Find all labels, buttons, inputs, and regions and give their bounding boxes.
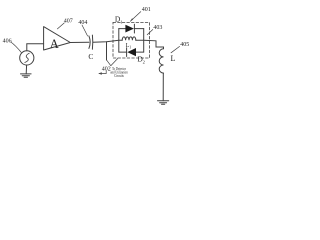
svg-text:C: C bbox=[88, 52, 93, 61]
label D2 bbox=[137, 54, 144, 64]
arrow to detector (L-shaped, pointing left) bbox=[98, 71, 106, 75]
node stub down from junction (output tap) bbox=[106, 42, 108, 60]
label 401 with arrow leader bbox=[130, 7, 151, 22]
text To Detector and Utilization Circuits bbox=[110, 67, 128, 78]
wire inductor L to ground bbox=[162, 73, 164, 101]
inner loop right vertical wire bbox=[143, 29, 145, 52]
bottom branch wire (D2 branch) bbox=[119, 51, 127, 53]
inductor L (vertical, 3 loops left) bbox=[159, 47, 175, 73]
svg-text:405: 405 bbox=[180, 42, 189, 48]
wire box output to antenna inductor bbox=[144, 40, 164, 47]
wire amplifier output to capacitor bbox=[70, 41, 89, 43]
svg-text:1: 1 bbox=[120, 19, 122, 24]
svg-text:407: 407 bbox=[64, 18, 73, 24]
capacitor C bbox=[88, 35, 93, 61]
label 405 bbox=[171, 42, 189, 53]
wire source bottom to ground bbox=[25, 65, 27, 74]
label 404 bbox=[78, 20, 87, 36]
inductor L1 (4 loops up) bbox=[122, 37, 136, 50]
label 403 bbox=[147, 25, 162, 35]
svg-text:A: A bbox=[50, 37, 59, 51]
svg-text:1: 1 bbox=[129, 46, 131, 50]
dashed box 401 bbox=[113, 22, 150, 58]
label 407 bbox=[57, 18, 72, 29]
svg-text:401: 401 bbox=[142, 7, 151, 13]
AC source V1 bbox=[20, 51, 34, 65]
svg-text:403: 403 bbox=[153, 25, 162, 31]
ground (right, under L) bbox=[158, 101, 169, 105]
wire source top to amplifier input bbox=[27, 44, 44, 51]
svg-text:404: 404 bbox=[78, 20, 87, 26]
label 406 bbox=[3, 38, 22, 52]
svg-text:L: L bbox=[171, 54, 176, 63]
svg-text:406: 406 bbox=[3, 38, 12, 44]
label 402 with leaders bbox=[102, 59, 118, 73]
ground (left, under source) bbox=[21, 74, 32, 77]
op-amp A (amplifier triangle) bbox=[44, 27, 71, 51]
middle branch wire from L1 to right vertical bbox=[136, 39, 144, 41]
inner loop left vertical wire bbox=[118, 29, 120, 52]
svg-text:2: 2 bbox=[143, 59, 145, 64]
middle branch wire to inductor L1 bbox=[119, 39, 122, 41]
wire capacitor to junction and into box bbox=[93, 40, 119, 42]
top branch wire (D1 branch) bbox=[119, 28, 126, 30]
diode D1 (points right) bbox=[125, 24, 134, 33]
svg-text:Circuits: Circuits bbox=[114, 74, 124, 78]
diode D2 (points left) bbox=[127, 48, 136, 57]
label D1 bbox=[115, 14, 123, 24]
